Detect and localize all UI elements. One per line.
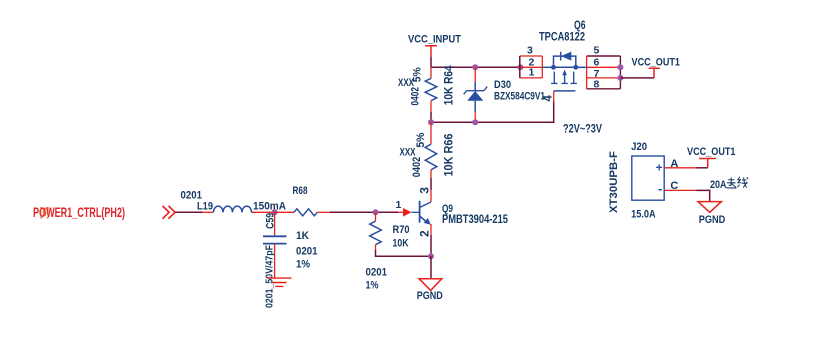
svg-text:BZX584C9V1: BZX584C9V1: [494, 91, 545, 103]
resistor R64: [398, 65, 455, 123]
svg-text:VCC_OUT1: VCC_OUT1: [687, 146, 736, 158]
svg-text:0402: 0402: [411, 157, 423, 178]
wire port to L19: [175, 211, 203, 213]
node junction C59 top: [272, 209, 278, 215]
hand-drawn CJK: zou: [726, 177, 736, 188]
wire R68 to Q9 base: [376, 211, 399, 213]
svg-text:C: C: [670, 180, 678, 192]
node junction at Q6 pin 2: [517, 64, 523, 70]
wire emitter down to node: [430, 235, 432, 256]
node junction Q6 pin 6: [617, 64, 623, 70]
svg-text:TPCA8122: TPCA8122: [539, 29, 585, 43]
svg-text:A: A: [670, 158, 678, 170]
svg-text:1: 1: [529, 66, 535, 78]
svg-text:R70: R70: [393, 224, 410, 236]
pin C: [664, 189, 696, 191]
node junction R70 top: [373, 209, 379, 215]
svg-text:150mA: 150mA: [253, 201, 286, 213]
pin 4 stub: [553, 91, 555, 102]
svg-text:0201: 0201: [366, 267, 388, 279]
node junction D30 top: [472, 64, 478, 70]
right pin box pins 5 6 7 8: [587, 67, 621, 78]
node junction emitter ground: [428, 253, 434, 259]
power symbol VCC_OUT1 at J20: [687, 146, 736, 168]
svg-text:5%: 5%: [411, 67, 423, 82]
svg-text:1%: 1%: [366, 280, 379, 292]
pin A: [664, 167, 696, 169]
svg-text:1K: 1K: [296, 230, 309, 242]
svg-text:PGND: PGND: [699, 214, 726, 226]
connector J20: [608, 141, 696, 221]
wire pin A to VCC_OUT1: [697, 167, 708, 169]
resistor R66: [400, 122, 456, 190]
hand-drawn CJK: xian: [737, 177, 748, 188]
svg-text:C59: C59: [265, 213, 277, 229]
svg-text:?2V~?3V: ?2V~?3V: [563, 121, 602, 135]
mosfet Q6: [520, 18, 621, 102]
svg-text:15.0A: 15.0A: [631, 209, 656, 221]
resistor R68: [275, 185, 376, 271]
svg-text:1: 1: [396, 199, 402, 211]
svg-text:PMBT3904-215: PMBT3904-215: [442, 214, 508, 226]
svg-text:XT30UPB-F: XT30UPB-F: [608, 151, 620, 213]
svg-text:10K R66: 10K R66: [443, 134, 455, 177]
svg-text:1%: 1%: [296, 259, 310, 271]
svg-text:-: -: [658, 181, 662, 196]
svg-text:0402: 0402: [409, 87, 421, 106]
svg-text:6: 6: [594, 56, 600, 68]
svg-text:R68: R68: [293, 185, 308, 197]
svg-text:0201_50V/47pF: 0201_50V/47pF: [264, 245, 276, 308]
ground under C59: [267, 278, 291, 286]
svg-text:10K: 10K: [393, 238, 409, 250]
wire second bus: [431, 102, 554, 123]
inductor L19: [181, 190, 287, 213]
svg-text:3: 3: [417, 187, 431, 194]
svg-text:D30: D30: [494, 79, 511, 91]
node junction D30 bottom: [472, 119, 478, 125]
wire R70 bottom to emitter node: [376, 250, 432, 256]
wire top bus: [431, 66, 520, 68]
svg-text:+: +: [656, 160, 663, 174]
svg-text:PGND: PGND: [417, 290, 443, 302]
node junction R64 bottom: [428, 119, 434, 125]
legs: [551, 72, 577, 84]
svg-text:5%: 5%: [415, 132, 427, 147]
text 20A trace note: [710, 177, 748, 191]
svg-text:J20: J20: [631, 141, 647, 153]
svg-text:VCC_INPUT: VCC_INPUT: [408, 34, 461, 46]
zener diode D30: [464, 67, 545, 122]
transistor Q9: [396, 187, 509, 237]
svg-text:L19: L19: [197, 200, 213, 212]
svg-text:VCC_OUT1: VCC_OUT1: [632, 57, 681, 69]
svg-text:0201: 0201: [296, 246, 318, 258]
svg-text:3: 3: [527, 45, 533, 57]
port POWER1_CTRL(PH2): [33, 205, 175, 220]
svg-text:20A: 20A: [710, 179, 727, 191]
left pin box pins 3 2 1: [520, 56, 543, 78]
power symbol VCC_INPUT: [408, 34, 461, 57]
wire node to PGND: [430, 256, 432, 279]
svg-text:5: 5: [594, 45, 600, 57]
gate plate: [554, 90, 576, 92]
wire pin C to PGND: [697, 190, 710, 201]
svg-text:2: 2: [418, 230, 432, 237]
power symbol VCC_OUT1 top: [632, 57, 681, 78]
resistor R70: [366, 212, 410, 291]
svg-text:4: 4: [543, 95, 555, 102]
svg-text:[6]: [6]: [40, 207, 49, 219]
wire pin7 to VCC_OUT1: [620, 77, 654, 79]
capacitor C59: [263, 212, 287, 308]
wire VCC_INPUT stub down: [430, 57, 432, 67]
svg-text:10K R64: 10K R64: [443, 65, 455, 106]
ground PGND under Q9: [417, 279, 443, 302]
mosfet body: [542, 66, 553, 68]
svg-text:8: 8: [594, 78, 600, 90]
node junction Q6 pin 7: [617, 75, 623, 81]
ground PGND at J20: [698, 202, 725, 226]
